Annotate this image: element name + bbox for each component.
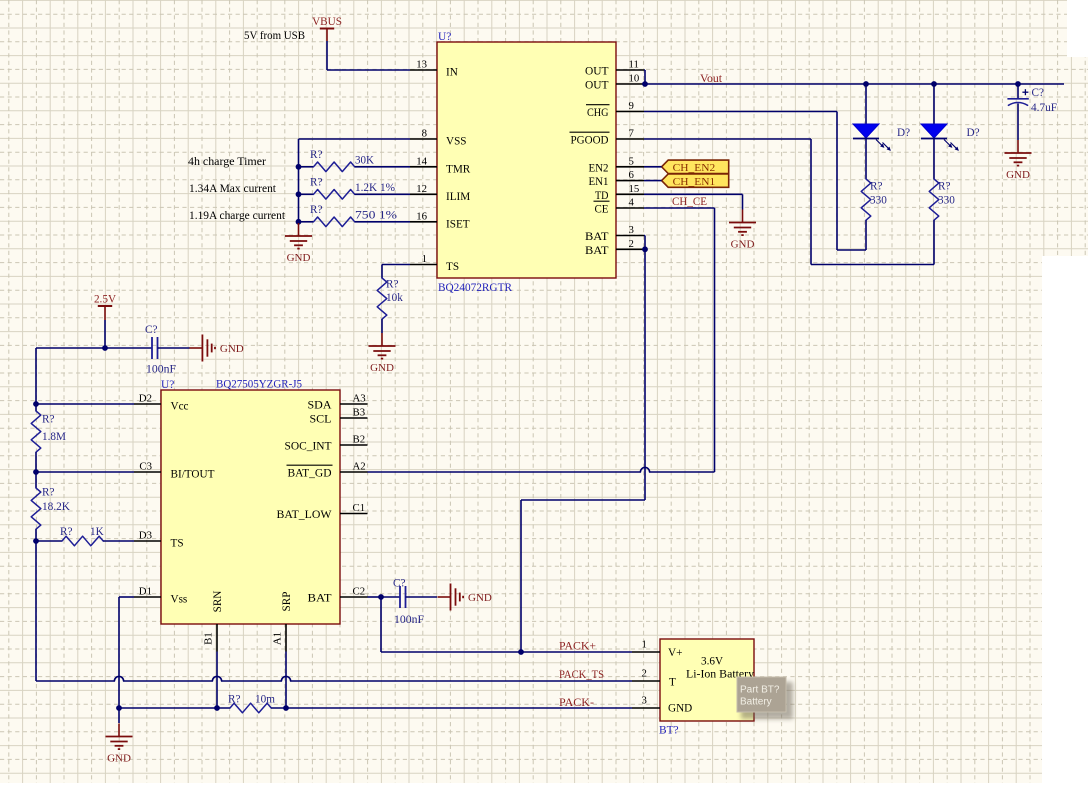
svg-text:R?: R?: [386, 279, 398, 291]
svg-text:U?: U?: [161, 379, 174, 391]
svg-text:R?: R?: [310, 204, 322, 216]
svg-text:2: 2: [629, 238, 634, 250]
svg-text:D1: D1: [139, 586, 152, 598]
svg-text:SDA: SDA: [308, 400, 332, 412]
svg-text:BAT: BAT: [585, 231, 609, 243]
svg-text:750 1%: 750 1%: [355, 210, 397, 222]
svg-text:TMR: TMR: [446, 163, 471, 175]
svg-text:BQ27505YZGR-J5: BQ27505YZGR-J5: [216, 379, 302, 391]
svg-text:GND: GND: [1006, 169, 1030, 181]
svg-text:13: 13: [416, 59, 427, 71]
svg-text:100nF: 100nF: [146, 364, 176, 376]
svg-text:1.8M: 1.8M: [42, 431, 66, 443]
svg-text:15: 15: [629, 183, 640, 195]
svg-text:C3: C3: [139, 461, 152, 473]
svg-text:TS: TS: [446, 261, 459, 273]
svg-text:VSS: VSS: [446, 136, 467, 148]
svg-text:PGOOD: PGOOD: [571, 135, 609, 147]
svg-text:3: 3: [629, 224, 634, 236]
svg-text:SCL: SCL: [310, 414, 332, 426]
svg-text:BAT: BAT: [585, 245, 609, 257]
svg-text:7: 7: [629, 128, 635, 140]
svg-text:1: 1: [422, 253, 427, 265]
svg-text:A3: A3: [353, 393, 366, 405]
svg-text:Vss: Vss: [171, 594, 188, 606]
svg-text:3: 3: [642, 695, 647, 707]
svg-text:10m: 10m: [255, 694, 275, 706]
svg-text:VBUS: VBUS: [312, 16, 342, 28]
svg-text:C?: C?: [1032, 87, 1044, 99]
svg-text:D?: D?: [897, 127, 910, 139]
svg-text:C?: C?: [145, 324, 157, 336]
svg-text:BAT: BAT: [308, 593, 332, 605]
svg-text:9: 9: [629, 100, 634, 112]
svg-text:TD: TD: [595, 190, 609, 202]
svg-text:16: 16: [416, 210, 427, 222]
svg-text:18.2K: 18.2K: [42, 501, 70, 513]
svg-text:PACK_TS: PACK_TS: [559, 669, 604, 681]
svg-text:3.6V: 3.6V: [701, 656, 723, 668]
svg-text:B3: B3: [353, 407, 366, 419]
svg-text:BAT_GD: BAT_GD: [288, 468, 332, 480]
svg-text:R?: R?: [870, 181, 882, 193]
svg-text:Vcc: Vcc: [171, 401, 189, 413]
svg-text:PACK+: PACK+: [559, 641, 596, 653]
svg-text:1.2K 1%: 1.2K 1%: [355, 182, 395, 194]
svg-text:Vout: Vout: [700, 73, 723, 85]
svg-text:C?: C?: [393, 578, 405, 590]
svg-text:R?: R?: [310, 149, 322, 161]
svg-text:4: 4: [629, 197, 635, 209]
svg-text:11: 11: [629, 59, 639, 71]
svg-text:R?: R?: [228, 694, 240, 706]
svg-text:GND: GND: [107, 752, 131, 764]
svg-text:U?: U?: [438, 31, 451, 43]
svg-text:GND: GND: [468, 592, 492, 604]
svg-text:100nF: 100nF: [394, 614, 424, 626]
svg-text:5V from USB: 5V from USB: [244, 30, 305, 42]
svg-text:A1: A1: [272, 632, 284, 645]
svg-text:2: 2: [642, 668, 647, 680]
svg-text:GND: GND: [287, 252, 311, 264]
svg-text:C1: C1: [353, 502, 366, 514]
svg-text:D?: D?: [967, 127, 980, 139]
svg-text:GND: GND: [668, 703, 692, 715]
svg-text:B2: B2: [353, 434, 366, 446]
svg-text:6: 6: [629, 169, 635, 181]
svg-text:1K: 1K: [90, 526, 104, 538]
svg-text:2.5V: 2.5V: [94, 293, 116, 305]
svg-text:30K: 30K: [355, 155, 374, 167]
svg-text:EN2: EN2: [589, 162, 609, 174]
svg-text:R?: R?: [60, 526, 72, 538]
svg-text:D2: D2: [139, 393, 152, 405]
svg-text:BQ24072RGTR: BQ24072RGTR: [438, 282, 512, 294]
svg-text:SOC_INT: SOC_INT: [285, 441, 332, 453]
svg-text:5: 5: [629, 155, 634, 167]
svg-text:OUT: OUT: [585, 80, 609, 92]
svg-text:1.34A Max current: 1.34A Max current: [189, 183, 277, 195]
svg-text:CHG: CHG: [587, 107, 609, 119]
svg-text:Battery: Battery: [740, 697, 772, 708]
svg-text:OUT: OUT: [585, 66, 609, 78]
svg-text:CH_EN2: CH_EN2: [673, 162, 716, 174]
svg-text:SRP: SRP: [281, 592, 293, 612]
svg-text:B1: B1: [203, 632, 215, 645]
svg-text:BT?: BT?: [659, 725, 679, 737]
svg-text:IN: IN: [446, 67, 458, 79]
svg-text:CH_CE: CH_CE: [672, 196, 707, 208]
svg-text:Part BT?: Part BT?: [740, 685, 780, 696]
svg-text:D3: D3: [139, 530, 152, 542]
svg-text:C2: C2: [353, 586, 366, 598]
svg-text:A2: A2: [353, 461, 366, 473]
svg-text:R?: R?: [938, 181, 950, 193]
svg-text:1: 1: [642, 639, 647, 651]
svg-text:T: T: [669, 677, 676, 689]
svg-text:GND: GND: [731, 238, 755, 250]
svg-text:12: 12: [416, 183, 427, 195]
svg-text:BI/TOUT: BI/TOUT: [171, 469, 215, 481]
svg-text:1.19A charge current: 1.19A charge current: [189, 210, 286, 222]
svg-text:GND: GND: [370, 362, 394, 374]
svg-text:BAT_LOW: BAT_LOW: [277, 509, 332, 521]
svg-text:ISET: ISET: [446, 218, 470, 230]
svg-text:R?: R?: [310, 177, 322, 189]
svg-text:R?: R?: [42, 487, 54, 499]
svg-text:GND: GND: [220, 343, 244, 355]
svg-text:V+: V+: [668, 647, 682, 659]
svg-text:4.7uF: 4.7uF: [1031, 102, 1057, 114]
svg-text:330: 330: [870, 195, 887, 207]
svg-text:8: 8: [422, 128, 427, 140]
svg-text:CE: CE: [595, 204, 609, 216]
svg-text:SRN: SRN: [212, 591, 224, 613]
svg-text:4h charge Timer: 4h charge Timer: [188, 156, 266, 168]
svg-text:10: 10: [629, 73, 640, 85]
svg-text:ILIM: ILIM: [446, 191, 470, 203]
svg-text:14: 14: [416, 155, 427, 167]
svg-text:10k: 10k: [386, 292, 403, 304]
svg-text:TS: TS: [171, 538, 184, 550]
svg-text:330: 330: [938, 195, 955, 207]
svg-text:R?: R?: [42, 414, 54, 426]
svg-text:EN1: EN1: [589, 176, 609, 188]
svg-text:CH_EN1: CH_EN1: [673, 176, 716, 188]
svg-text:PACK-: PACK-: [559, 697, 594, 709]
